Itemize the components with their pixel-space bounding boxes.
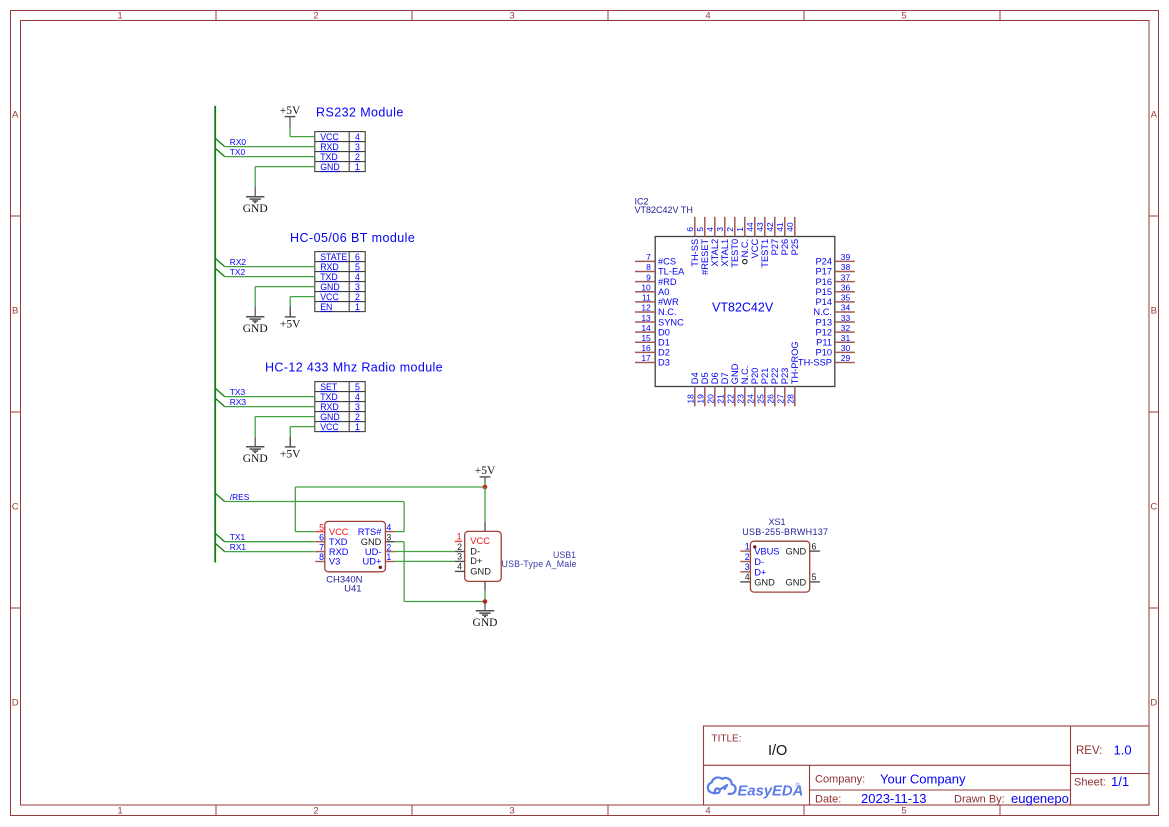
svg-text:12: 12 — [641, 303, 651, 313]
svg-text:TX3: TX3 — [230, 387, 246, 397]
svg-text:GND: GND — [243, 453, 268, 465]
wire: bus entry for RX2 — [215, 258, 225, 266]
connector USB1 USB-Type A_Male body — [465, 531, 502, 581]
connector RS232 Module header — [315, 132, 365, 172]
pin 6 TXD of U41 — [315, 541, 325, 543]
svg-text:3: 3 — [509, 11, 514, 22]
svg-text:22: 22 — [726, 394, 736, 404]
svg-text:40: 40 — [785, 222, 795, 232]
svg-text:D: D — [12, 697, 19, 708]
svg-text:D7: D7 — [720, 372, 730, 384]
svg-text:3: 3 — [355, 282, 360, 292]
svg-text:39: 39 — [841, 252, 851, 262]
svg-text:+5V: +5V — [475, 465, 496, 477]
svg-text:27: 27 — [776, 394, 786, 404]
svg-text:5: 5 — [812, 572, 817, 582]
svg-text:TL-EA: TL-EA — [658, 267, 685, 277]
pin 35 P14 of IC2 — [835, 301, 855, 303]
pin 7 #CS of IC2 — [635, 260, 655, 262]
pin 5 #RESET of IC2 — [704, 217, 706, 237]
ground RS232 — [246, 196, 264, 198]
svg-text:4: 4 — [745, 572, 750, 582]
pin 38 P17 of IC2 — [835, 271, 855, 273]
svg-text:1: 1 — [355, 162, 360, 172]
svg-text:VCC: VCC — [470, 536, 490, 546]
wire: /RES to pin — [225, 501, 315, 503]
svg-text:1/1: 1/1 — [1111, 774, 1129, 789]
pin 19 D5 of IC2 — [704, 387, 706, 407]
power +5V HC-05 — [285, 316, 296, 318]
svg-text:P22: P22 — [770, 368, 780, 385]
connector HC-05/06 header — [315, 252, 365, 312]
svg-text:1: 1 — [117, 806, 122, 817]
ground HC-12 — [246, 446, 264, 448]
svg-text:D-: D- — [754, 557, 764, 567]
wire: RX2 to pin — [225, 266, 315, 268]
svg-text:XTAL1: XTAL1 — [720, 239, 730, 267]
svg-text:VBUS: VBUS — [754, 547, 779, 557]
pin 41 P26 of IC2 — [784, 217, 786, 237]
svg-text:GND: GND — [320, 162, 340, 172]
svg-text:2: 2 — [355, 412, 360, 422]
pin 5 GND of XS1 — [810, 581, 820, 583]
pin 1 VBUS of XS1 — [740, 550, 750, 552]
svg-text:TXD: TXD — [320, 272, 338, 282]
svg-text:20: 20 — [706, 394, 716, 404]
pin 3 GND of U41 — [385, 541, 394, 543]
svg-text:#RESET: #RESET — [700, 238, 710, 274]
wire: UD+ to USB D+ — [395, 560, 455, 562]
svg-text:P13: P13 — [815, 317, 832, 327]
svg-text:6: 6 — [319, 532, 324, 542]
svg-text:Date:: Date: — [815, 794, 841, 806]
pin 30 P10 of IC2 — [835, 351, 855, 353]
svg-text:D2: D2 — [658, 348, 670, 358]
svg-text:V3: V3 — [329, 557, 340, 567]
svg-text:RTS#: RTS# — [358, 527, 382, 537]
svg-text:TEST1: TEST1 — [760, 239, 770, 268]
wire: +5V to RS232 VCC — [289, 127, 291, 137]
svg-text:35: 35 — [841, 293, 851, 303]
svg-text:B: B — [12, 305, 18, 316]
svg-text:2: 2 — [355, 292, 360, 302]
power +5V RS232 — [285, 116, 296, 118]
pin 37 P16 of IC2 — [835, 281, 855, 283]
svg-text:GND: GND — [243, 323, 268, 335]
pin 6 GND of XS1 — [810, 550, 820, 552]
svg-text:VCC: VCC — [320, 422, 339, 432]
svg-text:36: 36 — [841, 282, 851, 292]
svg-text:8: 8 — [646, 262, 651, 272]
svg-text:1: 1 — [735, 227, 745, 232]
svg-text:USB-255-BRWH137: USB-255-BRWH137 — [742, 527, 828, 537]
svg-text:RXD: RXD — [329, 547, 349, 557]
svg-text:P15: P15 — [815, 287, 832, 297]
svg-text:HC-12 433 Mhz Radio module: HC-12 433 Mhz Radio module — [265, 360, 443, 374]
wire: HC-12 VCC pin to +5V — [290, 426, 315, 428]
svg-text:P26: P26 — [780, 239, 790, 256]
wire: HC-05 VCC pin to +5V — [290, 296, 315, 298]
wire: RX0 to pin — [225, 146, 315, 148]
pin 2 D- of USB1 — [455, 551, 465, 553]
svg-text:26: 26 — [766, 394, 776, 404]
svg-text:10: 10 — [641, 282, 651, 292]
svg-text:25: 25 — [756, 394, 766, 404]
svg-text:4: 4 — [457, 562, 462, 572]
wire: TX3 to pin — [225, 396, 315, 398]
svg-text:5: 5 — [355, 382, 360, 392]
svg-text:14: 14 — [641, 323, 651, 333]
pin 34 N.C. of IC2 — [835, 311, 855, 313]
svg-text:4: 4 — [355, 272, 360, 282]
wire: U41 GND pin 3 to ground net — [395, 541, 405, 543]
wire: main vertical bus net — [214, 106, 216, 563]
svg-text:A0: A0 — [658, 287, 669, 297]
pin 33 P13 of IC2 — [835, 321, 855, 323]
svg-text:XS1: XS1 — [768, 517, 785, 527]
svg-text:UD+: UD+ — [363, 557, 382, 567]
svg-text:D0: D0 — [658, 327, 670, 337]
svg-text:TX1: TX1 — [230, 532, 246, 542]
svg-text:TX0: TX0 — [230, 147, 246, 157]
svg-text:D6: D6 — [710, 372, 720, 384]
svg-text:1: 1 — [386, 552, 391, 562]
svg-text:RXD: RXD — [320, 142, 339, 152]
wire: bus entry for /RES — [215, 493, 225, 501]
pin 44 VCC of IC2 — [754, 217, 756, 237]
EasyEDA logo — [708, 777, 736, 793]
svg-text:1: 1 — [745, 541, 750, 551]
pin 13 SYNC of IC2 — [635, 321, 655, 323]
svg-text:P20: P20 — [750, 368, 760, 385]
pin 2 D- of XS1 — [740, 561, 750, 563]
pin 4 GND of XS1 — [740, 581, 750, 583]
svg-text:EN: EN — [320, 302, 332, 312]
pin 3 D+ of XS1 — [740, 571, 750, 573]
svg-text:7: 7 — [319, 542, 324, 552]
wire: bus entry for TX1 — [215, 533, 225, 541]
svg-text:Your Company: Your Company — [880, 772, 966, 787]
svg-text:TEST0: TEST0 — [730, 239, 740, 268]
svg-text:VCC: VCC — [329, 527, 349, 537]
pin 11 #WR of IC2 — [635, 301, 655, 303]
power +5V main rail — [480, 476, 491, 478]
svg-text:D3: D3 — [658, 358, 670, 368]
connector XS1 body — [750, 541, 809, 592]
svg-text:U41: U41 — [344, 583, 361, 594]
svg-text:2: 2 — [725, 227, 735, 232]
wire: TX2 to pin — [225, 276, 315, 278]
svg-text:+5V: +5V — [280, 105, 301, 117]
svg-text:31: 31 — [841, 333, 851, 343]
svg-text:SET: SET — [320, 382, 338, 392]
svg-text:GND: GND — [320, 282, 340, 292]
connector HC-12 header — [315, 382, 365, 432]
wire: RX3 to pin — [225, 406, 315, 408]
wire: bus entry for RX0 — [215, 138, 225, 146]
svg-text:EasyEDA: EasyEDA — [738, 783, 804, 799]
junction node at ground net — [483, 599, 488, 604]
svg-text:13: 13 — [641, 313, 651, 323]
wire: /RES to RTS# pin 4 — [315, 501, 404, 503]
svg-text:32: 32 — [841, 323, 851, 333]
svg-text:2: 2 — [386, 542, 391, 552]
wire: HC-05 GND pin to ground — [255, 286, 315, 288]
svg-text:UD-: UD- — [365, 547, 382, 557]
svg-text:HC-05/06 BT module: HC-05/06 BT module — [290, 231, 415, 245]
svg-text:P23: P23 — [780, 368, 790, 385]
svg-text:28: 28 — [786, 394, 796, 404]
svg-text:RS232 Module: RS232 Module — [316, 106, 404, 120]
svg-text:C: C — [12, 501, 19, 512]
svg-text:A: A — [1151, 109, 1158, 120]
svg-text:37: 37 — [841, 272, 851, 282]
svg-text:TITLE:: TITLE: — [712, 734, 742, 745]
svg-text:P21: P21 — [760, 368, 770, 385]
svg-text:6: 6 — [355, 252, 360, 262]
svg-text:1: 1 — [117, 11, 122, 22]
wire: RS232 GND pin to ground — [255, 166, 315, 168]
svg-text:23: 23 — [736, 394, 746, 404]
pin 26 P22 of IC2 — [774, 387, 776, 407]
pin 39 P24 of IC2 — [835, 260, 855, 262]
svg-text:D5: D5 — [700, 372, 710, 384]
svg-text:USB-Type A_Male: USB-Type A_Male — [502, 559, 577, 569]
svg-text:P25: P25 — [790, 239, 800, 256]
svg-text:2023-11-13: 2023-11-13 — [861, 791, 927, 806]
svg-text:5: 5 — [901, 806, 906, 817]
pin 2 TEST0 of IC2 — [734, 217, 736, 237]
svg-text:3: 3 — [386, 532, 391, 542]
svg-text:4: 4 — [355, 132, 360, 142]
svg-text:11: 11 — [642, 293, 651, 303]
svg-text:3: 3 — [745, 562, 750, 572]
svg-text:STATE: STATE — [320, 252, 347, 262]
svg-text:1: 1 — [457, 532, 462, 542]
svg-text:VCC: VCC — [750, 239, 760, 259]
pin 42 P27 of IC2 — [774, 217, 776, 237]
svg-text:33: 33 — [841, 313, 851, 323]
svg-text:D1: D1 — [658, 337, 670, 347]
pin 40 P25 of IC2 — [794, 217, 796, 237]
pin 23 N.C. of IC2 — [744, 387, 746, 407]
pin 31 P11 of IC2 — [835, 341, 855, 343]
pin 1 marker dot of XS1 — [753, 545, 756, 548]
wire: UD- to USB D- — [395, 551, 455, 553]
svg-text:9: 9 — [646, 272, 651, 282]
svg-text:4: 4 — [705, 227, 715, 232]
svg-text:®: ® — [796, 782, 800, 789]
svg-text:2: 2 — [745, 552, 750, 562]
pin 4 RTS# of U41 — [385, 531, 394, 533]
svg-text:TX2: TX2 — [230, 267, 246, 277]
transistor U41: CH340N USB-UART IC body — [325, 521, 386, 571]
pin 4 GND of USB1 — [455, 570, 465, 572]
svg-text:VCC: VCC — [320, 292, 339, 302]
pin 10 A0 of IC2 — [635, 291, 655, 293]
pin 32 P12 of IC2 — [835, 331, 855, 333]
svg-text:16: 16 — [641, 343, 651, 353]
pin 29 TH-SSP of IC2 — [835, 362, 855, 364]
svg-text:41: 41 — [775, 222, 785, 232]
svg-text:4: 4 — [386, 522, 391, 532]
svg-text:P10: P10 — [815, 348, 832, 358]
pin 18 D4 of IC2 — [694, 387, 696, 407]
pin 14 D0 of IC2 — [635, 331, 655, 333]
pin 24 P20 of IC2 — [754, 387, 756, 407]
svg-text:GND: GND — [730, 363, 740, 384]
svg-text:1: 1 — [355, 302, 360, 312]
svg-text:GND: GND — [786, 547, 807, 557]
svg-text:GND: GND — [243, 203, 268, 215]
svg-text:2: 2 — [313, 806, 318, 817]
pin 15 D1 of IC2 — [635, 341, 655, 343]
pin 22 GND of IC2 — [734, 387, 736, 407]
pin 1 VCC of USB1 — [455, 540, 463, 542]
pin 21 D7 of IC2 — [724, 387, 726, 407]
svg-text:RX2: RX2 — [230, 257, 247, 267]
svg-text:3: 3 — [457, 552, 462, 562]
wire: bus entry for TX2 — [215, 268, 225, 276]
svg-text:P12: P12 — [815, 327, 832, 337]
svg-text:19: 19 — [696, 394, 706, 404]
svg-text:TXD: TXD — [320, 392, 338, 402]
svg-text:P14: P14 — [815, 297, 832, 307]
pin 16 D2 of IC2 — [635, 351, 655, 353]
svg-text:D-: D- — [470, 547, 480, 557]
svg-text:C: C — [1150, 501, 1157, 512]
svg-text:P17: P17 — [815, 267, 832, 277]
svg-text:GND: GND — [361, 537, 382, 547]
svg-text:RX0: RX0 — [230, 137, 247, 147]
pin 36 P15 of IC2 — [835, 291, 855, 293]
svg-text:30: 30 — [841, 343, 851, 353]
svg-text:1.0: 1.0 — [1114, 743, 1132, 758]
svg-text:D+: D+ — [754, 567, 766, 577]
pin 27 P23 of IC2 — [784, 387, 786, 407]
svg-text:TH-SS: TH-SS — [690, 239, 700, 267]
wire: USB1 GND to ground junction — [484, 581, 486, 590]
pin 8 TL-EA of IC2 — [635, 271, 655, 273]
svg-text:17: 17 — [641, 353, 651, 363]
pin 12 N.C. of IC2 — [635, 311, 655, 313]
pin 2 UD- of U41 — [385, 551, 394, 553]
pin 8 V3 of U41 — [315, 561, 325, 563]
svg-text:3: 3 — [509, 806, 514, 817]
svg-text:P24: P24 — [815, 257, 832, 267]
svg-text:38: 38 — [841, 262, 851, 272]
wire: bus entry for RX1 — [215, 543, 225, 551]
svg-text:#CS: #CS — [658, 257, 676, 267]
pin 4 XTAL2 of IC2 — [714, 217, 716, 237]
pin 5 VCC of U41 — [315, 531, 325, 533]
svg-text:3: 3 — [355, 142, 360, 152]
svg-text:D: D — [1150, 697, 1157, 708]
svg-text:P16: P16 — [815, 277, 832, 287]
svg-text:6: 6 — [812, 541, 817, 551]
wire: bus entry for TX0 — [215, 148, 225, 156]
svg-text:GND: GND — [470, 566, 491, 576]
pin 28 TH-PROG of IC2 — [794, 387, 796, 407]
wire: TX1 to pin — [225, 541, 315, 543]
svg-text:1: 1 — [355, 422, 360, 432]
ground HC-05 — [246, 316, 264, 318]
svg-text:42: 42 — [765, 222, 775, 232]
svg-text:REV:: REV: — [1076, 745, 1102, 757]
svg-text:7: 7 — [646, 252, 651, 262]
pin 20 D6 of IC2 — [714, 387, 716, 407]
svg-text:8: 8 — [319, 552, 324, 562]
pin 3 XTAL1 of IC2 — [724, 217, 726, 237]
svg-text:N.C.: N.C. — [740, 366, 750, 385]
svg-text:/RES: /RES — [230, 492, 250, 502]
svg-text:+5V: +5V — [280, 449, 301, 461]
svg-text:Drawn By:: Drawn By: — [954, 794, 1005, 806]
svg-text:XTAL2: XTAL2 — [710, 239, 720, 267]
svg-text:B: B — [1151, 305, 1157, 316]
svg-text:34: 34 — [841, 303, 851, 313]
svg-text:43: 43 — [755, 222, 765, 232]
svg-text:D+: D+ — [470, 556, 482, 566]
svg-text:15: 15 — [641, 333, 651, 343]
svg-text:5: 5 — [355, 262, 360, 272]
wire: TX0 to pin — [225, 156, 315, 158]
svg-text:TXD: TXD — [329, 537, 348, 547]
wire: +5V junction down to USB1 VCC — [484, 487, 486, 522]
svg-text:P27: P27 — [770, 239, 780, 256]
ground USB1 — [476, 610, 494, 612]
title block — [704, 726, 1150, 805]
svg-text:4: 4 — [705, 806, 710, 817]
svg-text:29: 29 — [841, 353, 851, 363]
svg-text:RXD: RXD — [320, 402, 339, 412]
svg-text:SYNC: SYNC — [658, 317, 684, 327]
svg-text:4: 4 — [355, 392, 360, 402]
pin 3 D+ of USB1 — [455, 560, 465, 562]
pin 1 UD+ of U41 — [385, 561, 394, 563]
svg-text:RXD: RXD — [320, 262, 339, 272]
svg-text:P11: P11 — [816, 337, 832, 347]
svg-text:TXD: TXD — [320, 152, 338, 162]
wire: RX1 to pin — [225, 551, 315, 553]
svg-text:RX3: RX3 — [230, 397, 247, 407]
svg-text:GND: GND — [320, 412, 340, 422]
svg-text:#WR: #WR — [658, 297, 679, 307]
svg-text:RX1: RX1 — [230, 542, 247, 552]
svg-text:Company:: Company: — [815, 774, 865, 786]
svg-text:2: 2 — [457, 542, 462, 552]
svg-text:21: 21 — [716, 394, 726, 404]
svg-text:#RD: #RD — [658, 277, 677, 287]
svg-text:VCC: VCC — [320, 132, 339, 142]
svg-text:VT82C42V: VT82C42V — [712, 301, 774, 315]
svg-text:2: 2 — [355, 152, 360, 162]
pin 1 marker circle of IC2 — [743, 259, 747, 263]
svg-text:GND: GND — [473, 617, 498, 629]
svg-text:VT82C42V TH: VT82C42V TH — [635, 205, 693, 215]
svg-text:eugenepo: eugenepo — [1011, 791, 1069, 806]
pin 6 TH-SS of IC2 — [694, 217, 696, 237]
svg-text:I/O: I/O — [768, 743, 787, 759]
pin 1 N.C. of IC2 — [744, 217, 746, 237]
power +5V HC-12 — [285, 446, 296, 448]
wire: bus entry for RX3 — [215, 398, 225, 406]
pin 7 RXD of U41 — [315, 551, 325, 553]
svg-text:GND: GND — [786, 578, 807, 588]
svg-text:6: 6 — [685, 227, 695, 232]
svg-text:5: 5 — [901, 11, 906, 22]
wire: HC-12 GND pin to ground — [255, 416, 315, 418]
